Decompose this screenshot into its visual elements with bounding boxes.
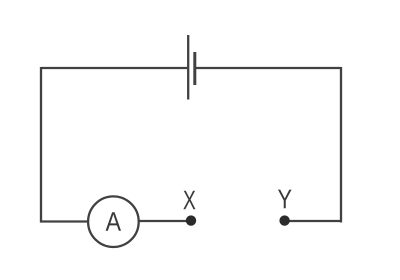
- wire ammeter to node X: [139, 220, 190, 222]
- node Y label: [278, 190, 292, 209]
- ammeter A1 circle: [88, 196, 139, 247]
- wire bottom-left segment: [40, 220, 87, 222]
- node Y terminal dot: [279, 215, 289, 225]
- wire left vertical: [40, 67, 42, 223]
- wire node Y to bottom-right corner: [285, 220, 342, 222]
- battery cell long plate (positive): [187, 35, 189, 100]
- ammeter A1 label A: [106, 212, 121, 231]
- wire top-left segment: [41, 67, 187, 69]
- wire top-right segment: [196, 67, 341, 69]
- node X label: [183, 191, 195, 210]
- battery cell short plate (negative): [193, 52, 196, 85]
- node X terminal dot: [186, 215, 196, 225]
- wire right vertical: [340, 67, 342, 223]
